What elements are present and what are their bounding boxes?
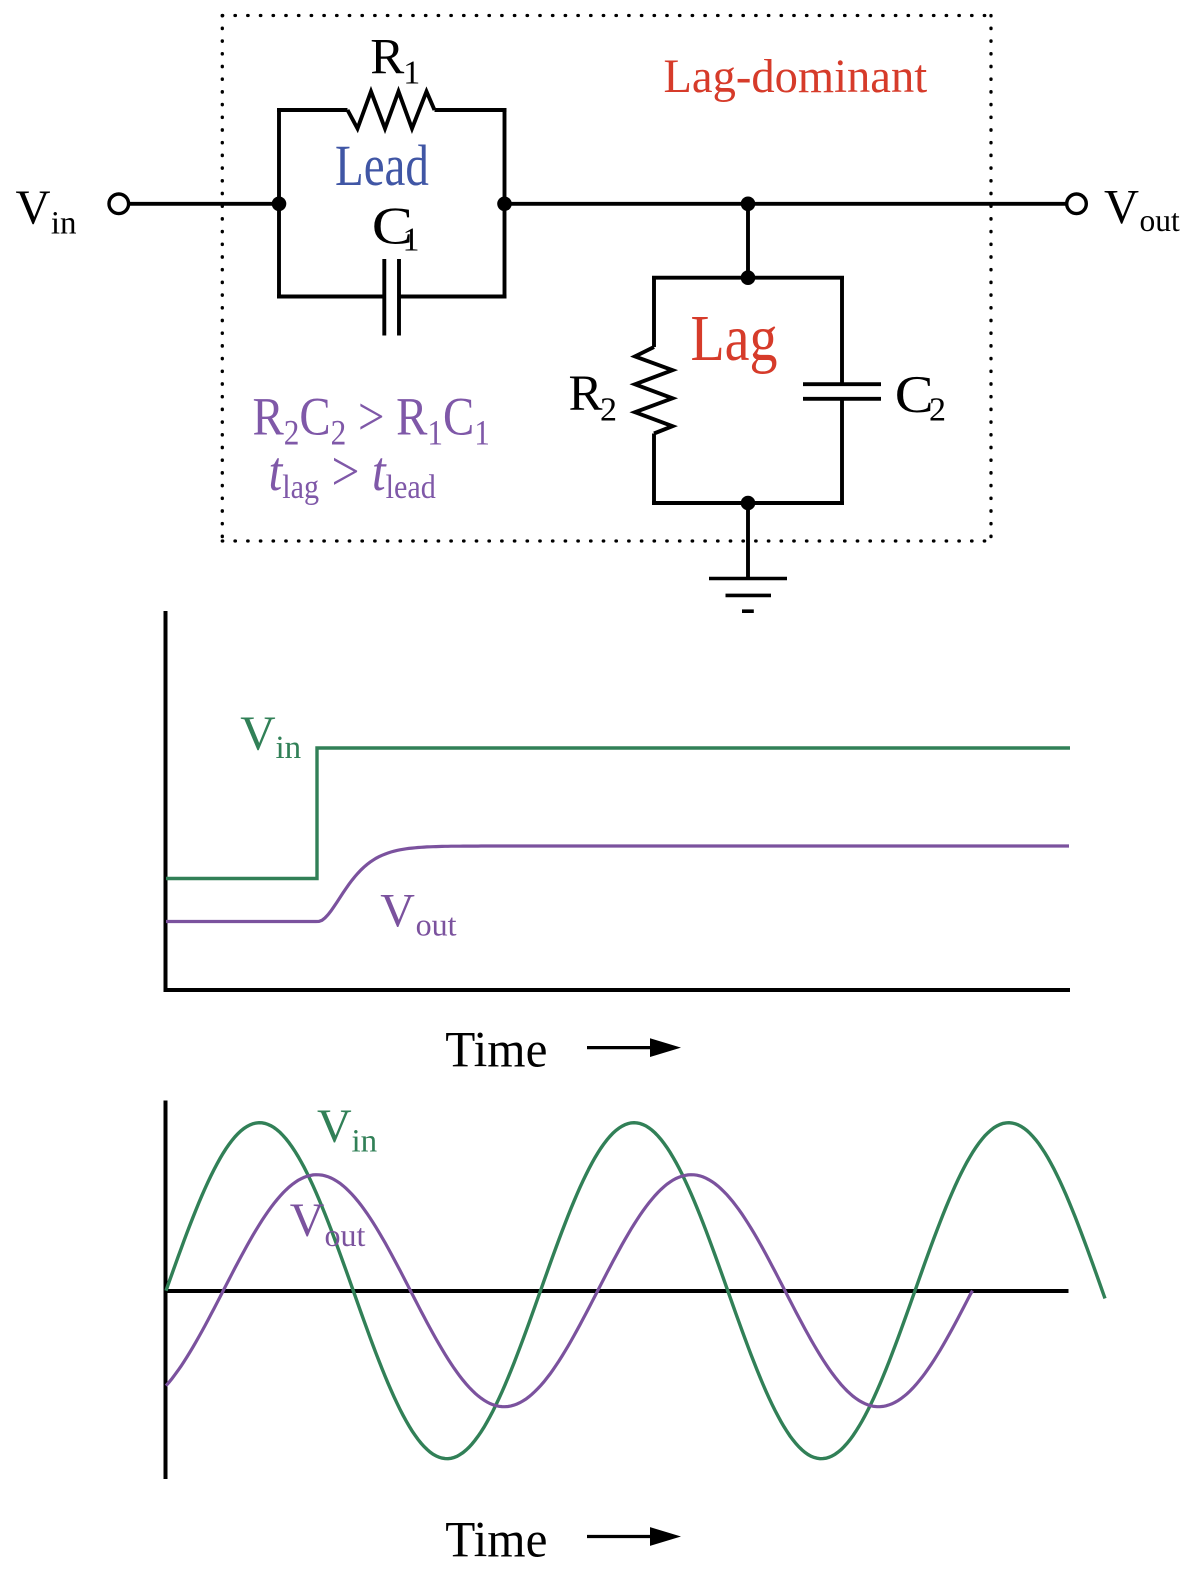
svg-text:1: 1 [403,54,420,91]
svg-text:in: in [276,730,302,766]
svg-text:V: V [1104,181,1139,234]
svg-text:V: V [380,884,415,937]
svg-text:1: 1 [403,221,420,258]
svg-text:Lead: Lead [335,135,429,199]
svg-text:out: out [325,1217,366,1253]
svg-text:out: out [416,907,457,943]
svg-text:R: R [370,29,404,85]
svg-text:V: V [240,706,275,761]
svg-text:Time: Time [445,1511,547,1568]
svg-text:out: out [1140,203,1181,238]
svg-text:R: R [569,366,603,422]
svg-text:Time: Time [445,1021,547,1078]
svg-text:2: 2 [929,392,946,429]
svg-text:V: V [290,1194,325,1247]
svg-text:in: in [352,1124,378,1160]
svg-text:C: C [895,365,934,424]
svg-text:V: V [317,1100,352,1153]
svg-text:2: 2 [600,392,617,429]
svg-text:V: V [16,182,51,235]
svg-text:Lag: Lag [691,302,778,375]
svg-text:in: in [51,205,77,241]
svg-text:Lag-dominant: Lag-dominant [664,51,928,104]
